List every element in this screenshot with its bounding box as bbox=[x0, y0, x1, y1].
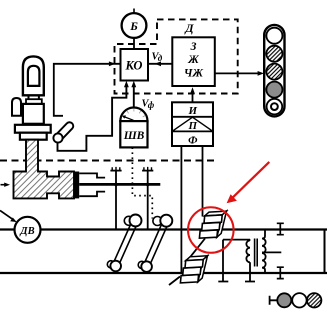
svg-text:ф: ф bbox=[148, 100, 155, 110]
signal lens 2 (hatched) bbox=[266, 46, 282, 62]
lower rail bbox=[0, 272, 327, 274]
flange lower bbox=[20, 133, 47, 140]
transformer secondary winding bbox=[262, 229, 266, 273]
svg-text:ДВ: ДВ bbox=[19, 226, 34, 237]
block З Ж ЧЖ bbox=[172, 37, 215, 86]
dashed line (roadbed level) bbox=[0, 160, 214, 162]
legend circle grey bbox=[277, 293, 291, 307]
lever 2 bars bbox=[144, 220, 169, 267]
transformer core bbox=[255, 239, 258, 267]
svg-text:И: И bbox=[188, 105, 198, 117]
transformer primary winding bbox=[245, 240, 255, 282]
legend circle white bbox=[292, 293, 306, 307]
svg-text:ШВ: ШВ bbox=[123, 130, 145, 142]
svg-text:П: П bbox=[188, 120, 198, 132]
lever 1 hubs bbox=[124, 216, 133, 225]
svg-text:Б: Б bbox=[129, 19, 138, 33]
machine ДВ bbox=[15, 217, 41, 243]
svg-text:КО: КО bbox=[125, 59, 143, 73]
wire from sensor to КО left with arrow bbox=[54, 64, 121, 116]
signal lens 3 (hatched) bbox=[266, 64, 282, 80]
lamp legs bbox=[29, 95, 39, 99]
upper receiver coil bbox=[199, 211, 226, 238]
insulated joint lower bbox=[277, 267, 284, 278]
wire Б to КО bbox=[133, 38, 135, 49]
node Б (tick above circle) bbox=[133, 9, 135, 13]
signal lens 5 (ring) bbox=[267, 99, 283, 115]
gauge ШВ dome bbox=[120, 108, 147, 122]
inlet arrow bbox=[1, 184, 5, 186]
cylinder walls bbox=[79, 173, 105, 196]
lever 2 hubs bbox=[153, 217, 162, 226]
legend tick bbox=[270, 296, 278, 305]
lever 1 bars bbox=[113, 219, 138, 266]
insulated joint upper bbox=[277, 223, 284, 234]
junction dots on rod bbox=[114, 183, 118, 187]
lamp collar bbox=[26, 99, 42, 104]
upper rail bbox=[0, 228, 327, 230]
highlight arrow (red) bbox=[232, 162, 270, 199]
lamp body bbox=[23, 104, 44, 124]
dotted wire ШВ to lever bbox=[132, 147, 152, 218]
piston plate (black) bbox=[74, 172, 79, 199]
flange upper bbox=[15, 125, 51, 133]
svg-text:Ж: Ж bbox=[187, 54, 199, 66]
brush contact left bbox=[110, 167, 121, 229]
piston valve hatched body bbox=[14, 140, 75, 199]
wire ИПФ left down to rail bbox=[180, 146, 182, 272]
wire Vд from З-box to КО with arrow bbox=[148, 63, 172, 65]
svg-text:З: З bbox=[190, 41, 197, 53]
transformer left branch bbox=[218, 240, 250, 282]
wire З-box to signal with arrow bbox=[215, 72, 261, 74]
gauge needle bbox=[124, 117, 134, 121]
svg-text:Ф: Ф bbox=[188, 135, 198, 147]
lamp head inner bbox=[28, 66, 40, 86]
gauge dial ticks bbox=[123, 109, 146, 118]
brush contact right bbox=[142, 167, 153, 229]
signal lens 4 (grey) bbox=[266, 82, 282, 98]
block И П Ф bbox=[172, 102, 213, 146]
dashed boundary of decoder unit Д bbox=[115, 19, 238, 93]
secondary tap bbox=[262, 251, 281, 253]
legend circle hatched bbox=[307, 293, 321, 307]
roller pivot bbox=[53, 133, 62, 142]
signal mast bbox=[264, 25, 284, 117]
roller lever bbox=[58, 126, 70, 138]
receiver axle bbox=[187, 239, 205, 262]
piston rod bbox=[79, 183, 160, 186]
svg-text:ЧЖ: ЧЖ bbox=[184, 68, 204, 80]
linkage wire to КО bottom bbox=[58, 85, 127, 151]
arrow И to З-box bbox=[192, 91, 194, 102]
signal lens 1 (white) bbox=[266, 28, 282, 44]
svg-text:Д: Д bbox=[184, 21, 194, 35]
indicator Б bbox=[122, 13, 147, 38]
block КО bbox=[121, 49, 149, 81]
lower receiver coil bbox=[180, 256, 207, 283]
svg-text:д: д bbox=[158, 53, 163, 63]
gauge ШВ body bbox=[120, 121, 147, 147]
wire ИПФ right down to brush bbox=[202, 146, 204, 217]
wire ШВ to КО bottom bbox=[133, 85, 135, 108]
side tab bbox=[12, 98, 21, 116]
lamp head outer bbox=[23, 56, 44, 95]
rail end connector bbox=[324, 229, 326, 273]
highlight circle (red) bbox=[188, 207, 234, 253]
arrow to ДВ bbox=[0, 211, 12, 219]
